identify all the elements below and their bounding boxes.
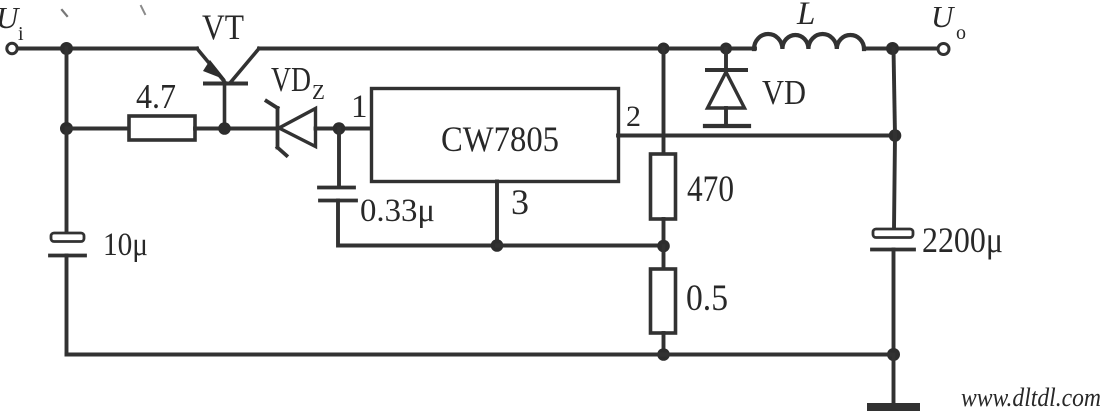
wire pin3 to divider node — [497, 244, 664, 248]
svg-text:L: L — [796, 0, 815, 32]
node base junction — [218, 122, 231, 135]
node output junction — [886, 42, 899, 55]
wire bottom rail — [67, 353, 894, 357]
wire top rail left — [18, 47, 197, 51]
ground — [871, 355, 916, 408]
zener diode VDz — [267, 101, 316, 156]
wire cap down and right to pin3 — [338, 201, 497, 246]
capacitor C 2200u — [872, 229, 914, 250]
svg-text:470: 470 — [687, 169, 734, 210]
svg-text:www.dltdl.com: www.dltdl.com — [961, 383, 1101, 411]
node pin2 right junction — [889, 129, 902, 142]
node at 470 branch top — [658, 43, 670, 55]
resistor R 4.7 — [129, 116, 195, 140]
capacitor C 0.33u — [319, 188, 356, 201]
svg-text:VT: VT — [202, 7, 244, 47]
svg-text:VD: VD — [762, 73, 806, 112]
wire 470 to node — [662, 219, 666, 246]
svg-text:2200μ: 2200μ — [922, 220, 1003, 260]
terminal Uo — [938, 44, 949, 55]
svg-text:4.7: 4.7 — [136, 77, 176, 116]
svg-text:2: 2 — [626, 100, 641, 133]
svg-text:10μ: 10μ — [103, 227, 148, 263]
svg-text:3: 3 — [511, 182, 529, 222]
transistor VT — [197, 49, 259, 129]
wire 10u to bottom rail — [65, 256, 69, 355]
wire zener to node — [316, 127, 372, 131]
wire left branch vertical upper — [65, 49, 69, 129]
svg-text:0.33μ: 0.33μ — [360, 193, 435, 229]
node bottom right junction — [887, 348, 900, 361]
wire pin 2 horizontal — [618, 134, 895, 138]
svg-text:U: U — [931, 0, 956, 34]
wire right branch top vertical — [894, 49, 896, 136]
wire to resistor 4.7 — [67, 127, 130, 131]
node divider junction — [657, 240, 670, 253]
wire pin 3 vertical — [495, 182, 499, 246]
node pin1 junction — [333, 122, 346, 135]
wire pin2 node down to cap — [894, 136, 895, 230]
wire cap to bottom rail — [892, 250, 896, 355]
svg-text:o: o — [956, 22, 966, 44]
diode VD — [705, 49, 749, 127]
wire left branch to cap 10u — [65, 129, 69, 234]
svg-text:1: 1 — [351, 89, 368, 125]
resistor R 0.5 — [651, 269, 676, 333]
wire top rail middle — [259, 47, 755, 51]
node pin3 junction — [491, 239, 504, 252]
inductor L — [754, 34, 864, 49]
wire 0.5 to bottom rail — [662, 333, 666, 355]
svg-text:i: i — [18, 23, 24, 45]
wire node to 0.5 — [662, 246, 666, 269]
wire pin1 node down to cap — [337, 129, 341, 188]
node at VD branch top — [720, 43, 732, 55]
wire 470 branch vertical — [662, 49, 666, 155]
op-amp U1 CW7805 box — [372, 89, 619, 182]
svg-text:CW7805: CW7805 — [441, 119, 559, 159]
scan artifact tick 2 — [141, 6, 145, 14]
svg-text:0.5: 0.5 — [686, 278, 728, 319]
wire top rail right — [864, 47, 937, 51]
node input junction — [60, 42, 73, 55]
svg-text:Z: Z — [312, 80, 325, 104]
resistor R 470 — [651, 154, 676, 219]
wire resistor to base node — [195, 127, 277, 131]
capacitor C 10u — [50, 233, 85, 256]
node bottom divider junction — [657, 348, 670, 361]
scan artifact tick 1 — [62, 10, 67, 16]
node left junction — [60, 122, 73, 135]
svg-text:VD: VD — [271, 60, 311, 99]
terminal Ui — [7, 43, 17, 53]
